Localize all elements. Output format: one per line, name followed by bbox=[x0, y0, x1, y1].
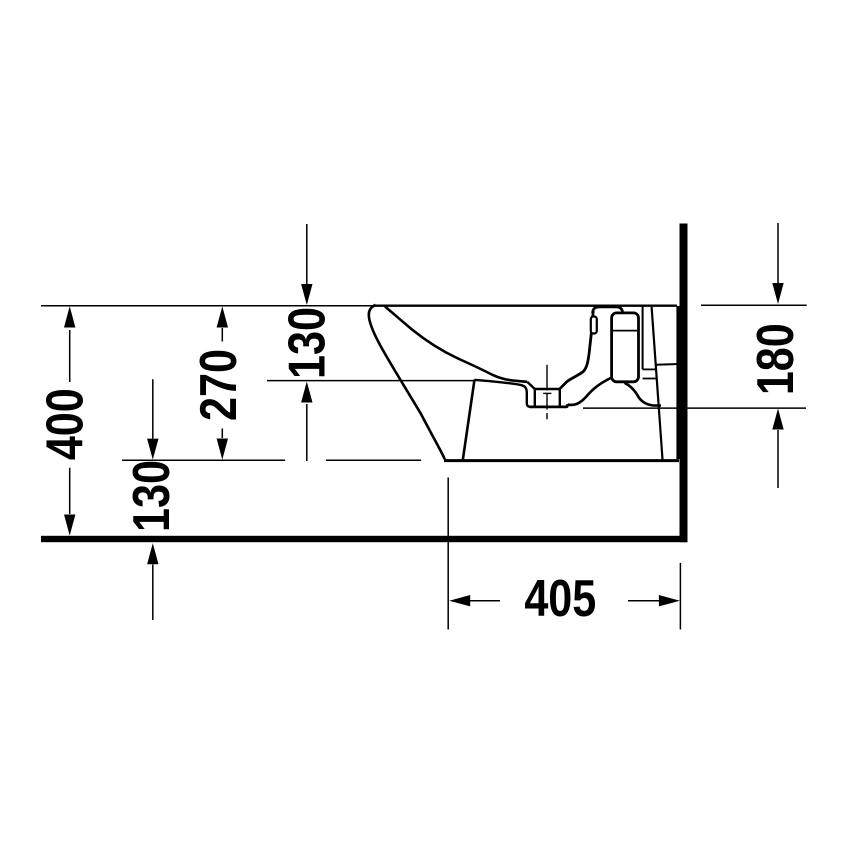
shroud tick upper bbox=[643, 368, 657, 370]
drain centerline horizontal dash bbox=[543, 392, 551, 394]
bidet foot bottom bbox=[444, 459, 679, 462]
dimension 130 top arrow up bbox=[301, 382, 312, 403]
dimension 130 left line bbox=[152, 379, 154, 620]
svg-text:400: 400 bbox=[37, 388, 95, 460]
dimension 130 top arrow down bbox=[301, 284, 312, 305]
back shroud left edge bbox=[642, 307, 644, 370]
pedestal front edge bbox=[463, 380, 475, 460]
dimension 130 left arrow up bbox=[147, 543, 158, 564]
svg-text:405: 405 bbox=[524, 570, 596, 628]
nozzle level reference line bbox=[267, 380, 475, 382]
spray arm neck top arc bbox=[593, 307, 623, 313]
bowl interior curve bbox=[385, 307, 527, 382]
svg-text:180: 180 bbox=[747, 323, 805, 395]
svg-text:130: 130 bbox=[123, 460, 181, 532]
dimension 405 extension line left bbox=[447, 478, 449, 630]
bidet rim top line bbox=[374, 305, 677, 307]
dimension 180 line bbox=[777, 223, 779, 488]
dimension 405 arrow left bbox=[449, 595, 470, 606]
bidet nose and front underside bbox=[369, 305, 445, 460]
svg-text:130: 130 bbox=[279, 307, 337, 379]
back bracket line bbox=[656, 363, 679, 366]
drain level reference line bbox=[583, 407, 806, 409]
tap block bbox=[612, 313, 639, 382]
back diagonal edge bbox=[652, 307, 663, 459]
dimension 130 left arrow down bbox=[147, 439, 158, 460]
tap block inner line bbox=[613, 330, 637, 332]
drain funnel left slant bbox=[527, 382, 535, 389]
floor bbox=[41, 536, 688, 542]
dimension 130 top line bbox=[306, 224, 308, 461]
dimension 405 arrow right bbox=[659, 595, 680, 606]
dimension 400 arrow down bbox=[64, 515, 75, 536]
dimension 180 arrow down bbox=[772, 283, 783, 304]
rim reference line right bbox=[701, 304, 807, 306]
seat level reference line bbox=[122, 459, 421, 461]
dimension 270 line bbox=[221, 328, 223, 438]
dimension 400 line bbox=[69, 330, 71, 514]
bidet back edge bbox=[676, 306, 679, 459]
spray arm valley right branch bbox=[625, 383, 662, 406]
drain funnel right slant / spray arm left edge bbox=[560, 311, 593, 389]
shelf edge bbox=[475, 380, 531, 407]
tap lever bbox=[591, 317, 597, 334]
drain body bottom bbox=[530, 404, 568, 407]
dimension 180 arrow up bbox=[772, 409, 783, 430]
drain plug bbox=[535, 389, 560, 406]
spray arm valley left branch bbox=[568, 377, 613, 405]
svg-text:270: 270 bbox=[190, 349, 248, 421]
dimension 400 arrow up bbox=[64, 306, 75, 327]
shroud tick lower bbox=[643, 378, 657, 380]
wall bbox=[680, 224, 688, 543]
dimension 405 line bbox=[470, 600, 659, 602]
dimension 270 arrow up bbox=[217, 306, 228, 327]
dimension 405 extension line right bbox=[679, 563, 681, 630]
dimension 270 arrow down bbox=[217, 439, 228, 460]
drain centerline vertical bbox=[546, 365, 548, 419]
rim reference line left bbox=[41, 305, 374, 307]
